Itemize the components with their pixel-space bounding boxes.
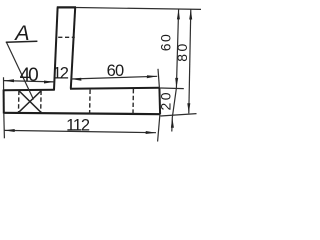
part outline: base top edge left segment	[4, 89, 55, 92]
arrowhead dim40 left	[4, 79, 14, 82]
leader line from label A	[6, 42, 33, 100]
extension line: right of base bottom (for dims 80/20)	[161, 114, 197, 116]
part outline: base top edge right segment	[70, 87, 160, 90]
extension line: base right below (for dim 112)	[158, 114, 160, 141]
part outline: base bottom edge	[4, 113, 161, 114]
part outline: base left edge	[3, 90, 5, 114]
part outline: rib right edge	[71, 7, 75, 88]
arrowhead dim80v bottom	[187, 103, 190, 113]
arrowhead dim60h right	[147, 75, 157, 78]
arrowhead dim60v bottom	[175, 78, 178, 88]
hidden line: dashed horizontal in rib	[58, 36, 75, 38]
extension line: left below base (for dim 112)	[3, 113, 6, 138]
dimension line 20 vertical (between extension lines)	[172, 88, 177, 131]
hidden line: dashed vertical 3 in base	[89, 90, 92, 114]
svg-text:60: 60	[157, 33, 173, 52]
arrowhead dim112 left	[4, 129, 14, 132]
svg-text:112: 112	[66, 117, 90, 135]
arrowhead dim80v top	[189, 9, 192, 19]
part outline: base right edge	[158, 87, 161, 114]
arrowhead dim112 right	[146, 131, 156, 134]
arrowhead dim60h left	[71, 78, 82, 81]
svg-text:60: 60	[107, 62, 124, 80]
part outline: rib top edge	[57, 6, 76, 8]
svg-text:80: 80	[174, 41, 190, 62]
arrowhead dim60v top	[177, 9, 180, 19]
cross X marking between hidden lines	[19, 91, 41, 112]
label A underline	[6, 41, 38, 42]
extension line: right of base top (for dims 60/20)	[161, 87, 184, 90]
dimension line 40	[4, 81, 55, 82]
hidden line: dashed vertical 2 in base	[40, 91, 42, 113]
dimension line 60 vertical	[176, 9, 178, 88]
extension line: left above base (for dim 40)	[3, 77, 5, 90]
svg-text:40: 40	[20, 65, 39, 86]
hidden line: dashed vertical 4 in base	[132, 89, 134, 114]
svg-text:12: 12	[53, 64, 69, 82]
extension line: base right corner up (for dim 60 horizontal)	[158, 69, 159, 88]
svg-text:20: 20	[158, 90, 174, 111]
hidden line: dashed vertical 1 in base	[18, 91, 20, 113]
arrowhead dim40 right	[44, 81, 54, 84]
arrowhead dim20 bottom outside	[171, 118, 174, 128]
extension line: top (from rib to right side)	[76, 8, 201, 10]
dimension line 80 vertical	[189, 9, 191, 113]
part outline: rib left edge	[54, 7, 58, 90]
dimension line 112	[4, 130, 156, 132]
svg-text:A: A	[13, 21, 29, 45]
dimension line 60 horizontal	[71, 76, 157, 79]
